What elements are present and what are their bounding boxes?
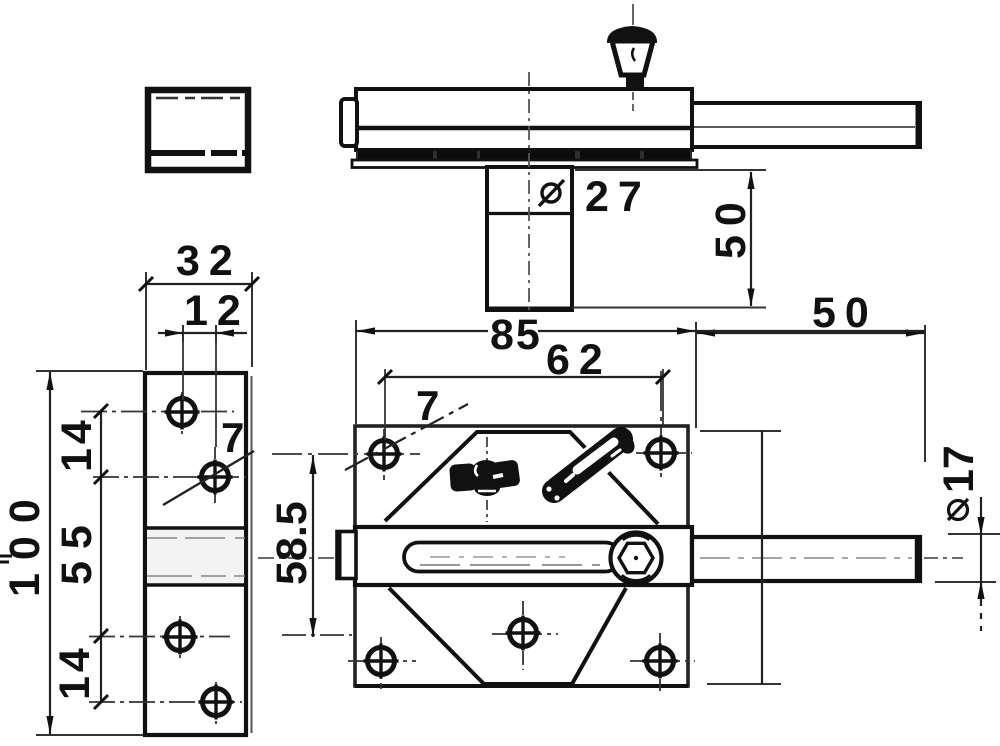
- dimension 12: [158, 287, 250, 447]
- bolt rod (main view): [692, 537, 920, 581]
- bar left protrusion: [337, 532, 356, 579]
- hole M-TR: [644, 436, 679, 471]
- svg-text:27: 27: [585, 173, 651, 221]
- hole M-BR: [643, 644, 678, 679]
- hole K2: [198, 460, 233, 495]
- svg-text:14: 14: [51, 644, 99, 700]
- svg-text:85: 85: [490, 311, 542, 359]
- bolt guide bar: [355, 527, 692, 585]
- svg-text:32: 32: [176, 237, 242, 285]
- hole K1 centerlines: [81, 392, 234, 436]
- svg-text:100: 100: [1, 486, 49, 597]
- hole K4 centerlines: [89, 682, 242, 724]
- dimension 85: [356, 311, 925, 424]
- svg-text:17: 17: [935, 445, 983, 493]
- dimension 50 horizontal (rod length): [696, 289, 925, 462]
- hole M-TL centerlines: [272, 429, 420, 480]
- dimension 62: [378, 336, 670, 440]
- mounting plate bottom strip: [352, 160, 697, 168]
- dimension dia 17: [935, 445, 1000, 631]
- hole K3 centerlines: [89, 616, 230, 659]
- hole K2 centerlines: [93, 447, 246, 503]
- knob stem: [626, 72, 644, 89]
- diameter symbol for 27: [539, 180, 564, 206]
- guide cylinder: [486, 167, 573, 310]
- hole K1: [165, 395, 200, 430]
- hole M-TR centerlines: [636, 371, 692, 482]
- dimension 58.5: [268, 455, 317, 637]
- lower trapezoid rib: [389, 588, 626, 684]
- knob centerline: [632, 4, 634, 111]
- hole M-BL: [364, 644, 399, 679]
- keeper plate: [145, 373, 252, 735]
- dimension 50 vertical (top view): [572, 170, 766, 308]
- knob cap: [607, 26, 657, 43]
- hole M-BR centerlines: [630, 633, 695, 691]
- svg-text:12: 12: [184, 287, 250, 335]
- right reference line: [700, 431, 781, 684]
- base plate: [355, 426, 688, 686]
- keeper plate slot band: [145, 528, 246, 585]
- slot in bar: [404, 543, 620, 572]
- svg-text:7: 7: [221, 414, 244, 461]
- rod centerline: [0, 556, 963, 562]
- label 7 main: [345, 382, 468, 470]
- mounting plate hatched edge: [356, 151, 692, 160]
- svg-text:50: 50: [812, 289, 878, 337]
- label 7 keeper: [163, 414, 254, 505]
- svg-text:14: 14: [53, 416, 101, 472]
- svg-text:58.5: 58.5: [268, 501, 316, 585]
- dimension 100: [1, 371, 143, 735]
- svg-text:50: 50: [707, 193, 755, 259]
- dimension 32: [139, 237, 259, 370]
- svg-text:55: 55: [53, 513, 101, 585]
- bolt rod (top view): [692, 103, 920, 147]
- hole M-BC: [506, 616, 541, 651]
- wing knob: [449, 459, 521, 496]
- hole K3: [163, 620, 198, 655]
- svg-text:62: 62: [546, 336, 612, 384]
- dimension chain 14/55/14: [51, 404, 108, 709]
- hole K4: [199, 685, 234, 720]
- bolt housing: [356, 89, 692, 150]
- housing left cap: [341, 99, 357, 146]
- keeper box: [148, 90, 248, 170]
- wing knob centerline: [486, 437, 488, 522]
- upper trapezoid rib: [385, 432, 658, 524]
- lever handle: [544, 424, 639, 506]
- label 27: [585, 173, 651, 221]
- hole M-TL: [367, 437, 402, 472]
- knob cone: [612, 41, 653, 75]
- hole M-BC centerlines: [282, 601, 558, 670]
- hex nut: [611, 533, 662, 584]
- svg-text:7: 7: [416, 382, 439, 429]
- cylinder centerline: [528, 72, 530, 320]
- hole M-BL centerlines: [348, 637, 416, 689]
